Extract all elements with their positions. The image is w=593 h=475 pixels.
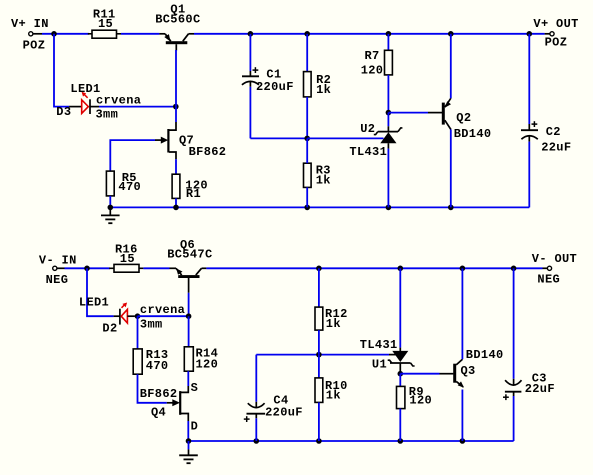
svg-text:1k: 1k <box>316 173 331 187</box>
wire R2 to divider node <box>306 97 308 138</box>
wire V- input to R16 <box>65 267 111 269</box>
svg-text:V- IN: V- IN <box>39 254 77 268</box>
wire input node down to LED row <box>54 34 69 107</box>
ground (bottom circuit) <box>179 441 198 463</box>
svg-text:V- OUT: V- OUT <box>532 252 577 266</box>
wire Q2 collector to ground rail <box>450 130 452 208</box>
resistor R2 <box>304 34 332 97</box>
wire Q7 gate to R5 <box>110 140 155 171</box>
node ground rail U2 <box>386 205 392 211</box>
wire Q1 base down to node <box>175 50 177 107</box>
wire Q2 emitter to top rail <box>450 34 452 98</box>
svg-text:1k: 1k <box>326 389 341 403</box>
capacitor C2 22uF <box>521 34 571 208</box>
svg-text:LED1: LED1 <box>79 295 109 309</box>
node ground rail R3 <box>304 205 310 211</box>
svg-text:470: 470 <box>146 359 169 373</box>
svg-text:470: 470 <box>118 180 141 194</box>
wire input node down to LED row (bottom) <box>87 268 114 316</box>
svg-text:1k: 1k <box>326 317 341 331</box>
shunt regulator U1 TL431 <box>360 268 415 373</box>
node rail C3 tap <box>511 266 517 272</box>
svg-text:BC560C: BC560C <box>155 12 200 26</box>
svg-text:R1: R1 <box>186 187 201 201</box>
wire R5 to ground rail <box>109 196 111 208</box>
node divider R12/R10 <box>316 352 322 358</box>
wire R1 to ground rail <box>175 198 177 207</box>
wire Q1 collector along top rail to output <box>194 33 545 35</box>
resistor R1 <box>172 174 208 201</box>
node ground rail R1 <box>173 205 179 211</box>
wire Q4 drain to ground rail <box>187 421 189 441</box>
wire R14 to Q4 source <box>187 371 189 386</box>
resistor R14 <box>184 316 218 371</box>
node top rail C2 tap <box>527 31 533 37</box>
LED D2 crvena (red) <box>79 295 185 335</box>
terminal V- OUT <box>532 252 577 286</box>
node top rail C1 tap <box>248 31 254 37</box>
node R7/U2/Q2-base <box>386 110 392 116</box>
svg-text:1k: 1k <box>316 83 331 97</box>
resistor R5 <box>106 171 141 196</box>
node Q1 base / Q7 drain junction <box>173 104 179 110</box>
node ground rail Q4/ground <box>186 438 192 444</box>
svg-text:NEG: NEG <box>537 272 560 286</box>
svg-text:BD140: BD140 <box>454 127 492 141</box>
node ground rail R9 <box>398 438 404 444</box>
svg-text:V+ OUT: V+ OUT <box>533 17 578 31</box>
node rail U1 tap <box>398 266 404 272</box>
wire Q7 source to R1 <box>175 159 177 174</box>
svg-text:15: 15 <box>120 252 135 266</box>
wire ground rail (top circuit) <box>110 206 529 208</box>
svg-text:22uF: 22uF <box>541 140 571 154</box>
resistor R10 <box>315 355 348 441</box>
wire C1 bottom to divider node <box>250 137 307 139</box>
LED D3 crvena (red) <box>56 82 141 122</box>
node top rail Q2 emitter tap <box>448 31 454 37</box>
transistor Q1 BC560C (PNP) <box>155 2 200 50</box>
node Q6 base / R14 junction <box>186 313 192 319</box>
svg-text:BC547C: BC547C <box>167 247 212 261</box>
svg-text:3mm: 3mm <box>140 317 163 331</box>
svg-text:BF862: BF862 <box>140 387 178 401</box>
svg-text:D3: D3 <box>56 105 71 119</box>
wire Q3 emitter to ground rail <box>461 390 463 442</box>
svg-text:Q2: Q2 <box>456 111 471 125</box>
node input junction <box>51 31 57 37</box>
wire Q6 base down to LED row <box>188 293 190 316</box>
svg-text:S: S <box>191 381 199 395</box>
terminal V+ IN <box>11 17 49 53</box>
resistor R13 <box>133 316 168 374</box>
transistor Q7 BF862 (JFET) <box>155 122 226 159</box>
node ground rail Q3 emitter <box>460 438 466 444</box>
transistor Q3 BD140 (NPN drawn) <box>440 348 504 387</box>
wire ground rail (bottom circuit) <box>189 440 514 442</box>
svg-text:220uF: 220uF <box>256 80 294 94</box>
node ground rail R5 <box>108 205 114 211</box>
node divider R2/R3 <box>304 136 310 142</box>
svg-text:V+ IN: V+ IN <box>11 17 49 31</box>
svg-text:BF862: BF862 <box>189 145 227 159</box>
svg-text:POZ: POZ <box>545 36 568 50</box>
svg-text:crvena: crvena <box>96 94 141 108</box>
svg-text:U2: U2 <box>360 122 375 136</box>
svg-text:Q4: Q4 <box>151 406 166 420</box>
resistor R11 <box>88 8 121 39</box>
node top rail R2 tap <box>304 31 310 37</box>
svg-text:120: 120 <box>409 394 432 408</box>
svg-text:NEG: NEG <box>46 273 69 287</box>
svg-text:TL431: TL431 <box>349 145 387 159</box>
ground (top circuit) <box>101 207 120 223</box>
wire R16 to Q6 emitter <box>143 267 169 269</box>
node ground rail Q2 <box>448 205 454 211</box>
transistor Q6 BC547C (NPN) <box>167 238 212 293</box>
terminal V+ OUT <box>533 17 578 50</box>
wire node to Q2 base <box>388 112 428 114</box>
svg-text:POZ: POZ <box>23 39 46 53</box>
capacitor C4 220uF <box>244 355 303 441</box>
resistor R3 <box>304 138 331 207</box>
svg-text:D2: D2 <box>102 321 117 335</box>
svg-text:R7: R7 <box>365 49 380 63</box>
wire mid rail C4 to U1 ref <box>256 354 389 356</box>
svg-text:C2: C2 <box>546 125 561 139</box>
resistor R16 <box>109 243 143 272</box>
transistor Q2 BD140 (PNP) <box>428 98 491 141</box>
node ground rail C4 <box>253 438 259 444</box>
node top rail R7 tap <box>386 31 392 37</box>
capacitor C3 22uF <box>503 268 555 441</box>
svg-text:BD140: BD140 <box>466 348 504 362</box>
resistor R9 <box>397 374 433 441</box>
svg-text:Q3: Q3 <box>461 364 476 378</box>
wire divider node to U2 ref <box>307 137 383 139</box>
svg-text:120: 120 <box>361 63 384 77</box>
wire U2 anode to ground rail <box>387 149 389 208</box>
node LED/R13 junction <box>135 313 141 319</box>
wire node to Q3 base <box>400 373 439 375</box>
node rail Q3 collector tap <box>460 266 466 272</box>
svg-text:crvena: crvena <box>140 303 185 317</box>
svg-text:D: D <box>191 420 199 434</box>
wire R13 to Q4 gate <box>138 374 167 403</box>
svg-text:U1: U1 <box>372 358 387 372</box>
svg-text:220uF: 220uF <box>265 406 303 420</box>
wire node down to Q7 drain <box>175 107 177 122</box>
node input junction (bottom) <box>84 266 90 272</box>
wire R11 to Q1 emitter <box>121 33 159 35</box>
svg-text:22uF: 22uF <box>525 382 555 396</box>
wire Q3 collector to rail <box>461 268 463 359</box>
wire V+ input to R11 <box>42 33 89 35</box>
wire LED node to Q6 base node <box>138 315 189 317</box>
capacitor C1 220uF <box>242 34 294 139</box>
svg-text:120: 120 <box>196 357 219 371</box>
shunt regulator U2 TL431 <box>349 113 402 159</box>
svg-text:TL431: TL431 <box>360 338 398 352</box>
wire Q6 collector along rail to output <box>206 267 542 269</box>
node rail R12 tap <box>316 266 322 272</box>
svg-text:3mm: 3mm <box>96 108 119 122</box>
terminal V- IN <box>39 254 77 288</box>
svg-text:15: 15 <box>98 17 113 31</box>
node ground rail R10 <box>316 438 322 444</box>
transistor Q4 BF862 (JFET) <box>140 381 198 433</box>
resistor R12 <box>315 268 348 354</box>
wire LED D3 to node <box>99 106 176 108</box>
resistor R7 <box>361 34 393 113</box>
node U1/R9/Q3-base <box>398 371 404 377</box>
